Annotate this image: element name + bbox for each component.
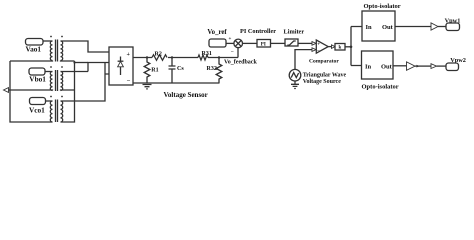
svg-text:Vao1: Vao1 bbox=[26, 45, 42, 54]
wire T2 primary bottom to left arrow bbox=[8, 89, 53, 92]
resistor R32 bbox=[216, 58, 222, 84]
wire T3 secondary top to rectifier input 3 bbox=[61, 63, 110, 102]
svg-text:Limiter: Limiter bbox=[284, 29, 305, 36]
node Cs top bbox=[171, 56, 173, 58]
svg-text:+: + bbox=[127, 52, 131, 58]
feedback riser wire bbox=[237, 48, 239, 58]
arrow into Vpw2 bbox=[431, 64, 437, 69]
left neutral bus bbox=[10, 61, 53, 122]
transformer T3 bbox=[50, 96, 63, 122]
svg-text:R2: R2 bbox=[155, 52, 162, 58]
source Vao1 bbox=[26, 39, 44, 46]
svg-text:k: k bbox=[339, 46, 342, 51]
resistor R2 bbox=[152, 55, 167, 61]
wire PI to Limiter bbox=[271, 42, 287, 44]
svg-text:–: – bbox=[316, 49, 320, 54]
wire T1 secondary bottom to wye bus bbox=[61, 60, 75, 63]
opto-isolator block U3 bbox=[362, 11, 395, 41]
wire R2 to R31 bbox=[168, 57, 198, 59]
svg-text:Vo_feedback: Vo_feedback bbox=[224, 60, 257, 66]
svg-text:In: In bbox=[365, 64, 372, 71]
svg-text:Voltage Source: Voltage Source bbox=[303, 79, 342, 85]
source Vo_ref bbox=[209, 39, 226, 47]
wire gain to riser bbox=[345, 46, 351, 48]
sum junction S1 bbox=[234, 39, 243, 48]
limiter block bbox=[285, 39, 298, 46]
wire wye bus to rectifier input 2 bbox=[75, 62, 89, 64]
svg-text:+: + bbox=[317, 42, 320, 47]
source Vbo1 bbox=[29, 68, 45, 75]
svg-text:Out: Out bbox=[381, 64, 393, 71]
wire source to comparator - input + arrow bbox=[295, 50, 312, 70]
wire T2 secondary top bbox=[61, 71, 89, 73]
svg-text:–: – bbox=[230, 50, 234, 55]
inverter buffer bbox=[407, 62, 416, 70]
svg-text:R31: R31 bbox=[202, 51, 212, 57]
arrow nub after inverter bbox=[417, 65, 420, 68]
arrow left neutral bbox=[4, 88, 9, 93]
transformer T1 bbox=[50, 36, 63, 62]
svg-text:Vco1: Vco1 bbox=[29, 105, 45, 114]
comparator U2 bbox=[316, 40, 328, 53]
svg-text:PI: PI bbox=[261, 43, 266, 48]
wire Vo_ref to sum bbox=[226, 42, 234, 44]
opto-isolator block U4 bbox=[362, 51, 394, 79]
svg-text:In: In bbox=[366, 24, 373, 31]
wye bus bbox=[61, 61, 75, 122]
wire T2 secondary bottom to wye bus bbox=[61, 89, 75, 92]
svg-text:R32: R32 bbox=[207, 66, 217, 72]
riser wire to opto inputs bbox=[351, 27, 362, 66]
resistor R1 bbox=[144, 58, 150, 84]
PI controller block bbox=[257, 40, 271, 48]
wire rectifier - output rail bbox=[133, 82, 220, 84]
rectifier bridge U1 bbox=[109, 47, 133, 85]
svg-text:R1: R1 bbox=[151, 68, 158, 74]
wire Vao1 to T1 primary bbox=[43, 40, 53, 42]
ground G2 bbox=[291, 81, 299, 89]
svg-text:Opto-isolator: Opto-isolator bbox=[362, 84, 399, 91]
arrow into Vpw1 bbox=[431, 23, 438, 30]
svg-text:Vbo1: Vbo1 bbox=[29, 75, 46, 84]
svg-text:Cs: Cs bbox=[177, 66, 184, 72]
wire R31 to feedback riser bbox=[208, 57, 238, 59]
svg-text:+: + bbox=[229, 37, 232, 42]
svg-text:Triangular Wave: Triangular Wave bbox=[303, 73, 347, 79]
diode glyph bbox=[120, 57, 122, 76]
wire T1 secondary top to rectifier input 1 bbox=[61, 41, 110, 52]
ground G1 bbox=[143, 85, 152, 89]
triangular wave source V1 bbox=[289, 69, 301, 81]
svg-text:Vo_ref: Vo_ref bbox=[207, 29, 227, 36]
resistor R31 bbox=[198, 55, 208, 60]
svg-text:Voltage Sensor: Voltage Sensor bbox=[164, 91, 208, 99]
node Vo_feedback bbox=[218, 56, 220, 58]
wire Vbo1 to T2 primary bbox=[45, 71, 53, 73]
wire rectifier + output bbox=[133, 57, 152, 59]
capacitor Cs bbox=[169, 58, 176, 84]
source Vco1 bbox=[30, 98, 46, 105]
node riser junction bbox=[350, 46, 353, 49]
scope Vpw1 bbox=[446, 23, 460, 31]
wire Limiter to comparator + arrow bbox=[298, 42, 312, 44]
wire opto2 out bbox=[393, 65, 407, 67]
transformer T2 bbox=[50, 66, 63, 91]
wire Vco1 to T3 primary bbox=[46, 100, 53, 102]
wire sum to PI bbox=[243, 42, 258, 44]
svg-text:PI Controller: PI Controller bbox=[240, 28, 276, 35]
gain block k bbox=[335, 44, 345, 51]
wire opto1 out bbox=[395, 26, 431, 28]
svg-text:Out: Out bbox=[382, 24, 394, 31]
scope Vpw2 bbox=[446, 63, 459, 71]
wire comparator to gain + arrow bbox=[328, 46, 331, 48]
wire T1 primary bottom to left bus bbox=[10, 60, 53, 63]
svg-text:Opto-isolator: Opto-isolator bbox=[364, 3, 401, 10]
node R1 top bbox=[146, 56, 148, 58]
svg-text:Comparator: Comparator bbox=[309, 59, 339, 65]
wire T2 secondary top jog to rectifier input 2 bbox=[88, 63, 109, 72]
